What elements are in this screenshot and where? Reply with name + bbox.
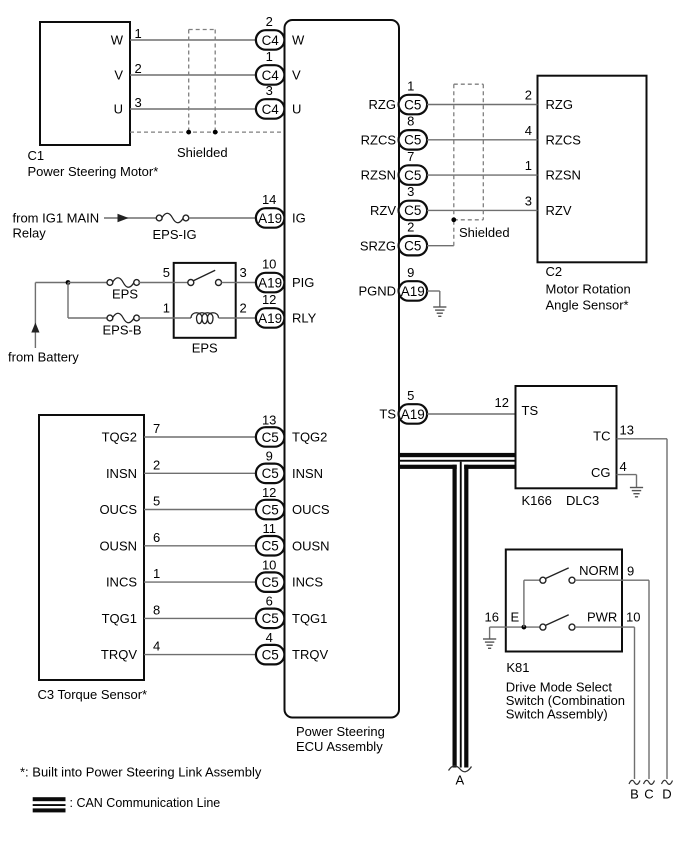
svg-text:OUSN: OUSN [292,538,330,553]
svg-text:C5: C5 [262,502,279,517]
svg-text:TS: TS [379,407,396,422]
svg-text:4: 4 [525,123,532,138]
svg-text:TQG1: TQG1 [292,611,327,626]
svg-text:RZG: RZG [369,97,396,112]
svg-text:RZCS: RZCS [361,132,397,147]
svg-text:TS: TS [522,403,539,418]
svg-text:2: 2 [153,457,160,472]
svg-text:Relay: Relay [13,226,47,241]
svg-text:13: 13 [262,412,276,427]
svg-text:12: 12 [262,485,276,500]
svg-text:3: 3 [266,83,273,98]
svg-text:INSN: INSN [292,466,323,481]
svg-text:12: 12 [495,395,509,410]
svg-text:OUCS: OUCS [292,502,330,517]
svg-text:5: 5 [163,265,170,280]
svg-text:*: Built into Power Steering L: *: Built into Power Steering Link Assemb… [20,765,262,780]
svg-text:8: 8 [407,114,414,129]
svg-text:RZG: RZG [546,97,573,112]
svg-text:C3 Torque Sensor*: C3 Torque Sensor* [38,687,148,702]
svg-text:INCS: INCS [106,575,137,590]
svg-text:1: 1 [163,301,170,316]
svg-text:V: V [114,68,123,83]
svg-text:3: 3 [407,184,414,199]
svg-text:2: 2 [135,61,142,76]
svg-text:EPS: EPS [192,341,218,356]
svg-text:C4: C4 [262,102,280,117]
svg-text:C5: C5 [404,239,421,254]
svg-text:1: 1 [407,78,414,93]
svg-text:IG: IG [292,211,306,226]
svg-text:10: 10 [262,557,276,572]
svg-text:C5: C5 [262,466,279,481]
svg-text:14: 14 [262,192,276,207]
svg-text:4: 4 [153,639,160,654]
svg-text:DLC3: DLC3 [566,493,599,508]
svg-text:10: 10 [262,256,276,271]
svg-text:2: 2 [525,88,532,103]
svg-text:8: 8 [153,602,160,617]
svg-text:3: 3 [135,95,142,110]
svg-text:C4: C4 [262,68,280,83]
svg-text:6: 6 [266,594,273,609]
svg-text:TRQV: TRQV [101,647,137,662]
svg-text:K166: K166 [522,493,552,508]
svg-text:EPS-IG: EPS-IG [153,227,197,242]
svg-text:A19: A19 [258,311,282,326]
svg-text:TC: TC [593,429,610,444]
svg-text:OUCS: OUCS [99,502,137,517]
svg-text:RZV: RZV [546,203,572,218]
svg-text:9: 9 [407,265,414,280]
svg-text:3: 3 [525,193,532,208]
svg-text:Power Steering: Power Steering [296,724,385,739]
svg-text:C5: C5 [262,539,279,554]
svg-text:C5: C5 [262,430,279,445]
svg-text:C5: C5 [404,203,421,218]
svg-text:6: 6 [153,530,160,545]
svg-text:INSN: INSN [106,466,137,481]
svg-text:PIG: PIG [292,275,314,290]
svg-text:Shielded: Shielded [459,225,510,240]
svg-text:Motor Rotation: Motor Rotation [546,282,631,297]
svg-text:CG: CG [591,465,611,480]
svg-text:V: V [292,68,301,83]
svg-text:K81: K81 [506,660,529,675]
svg-text:TQG1: TQG1 [102,611,137,626]
svg-text:11: 11 [262,521,276,536]
svg-text:C2: C2 [546,264,563,279]
svg-text:2: 2 [266,14,273,29]
svg-text:A19: A19 [258,275,282,290]
svg-text:C: C [644,787,653,802]
svg-text:7: 7 [407,149,414,164]
svg-text:C5: C5 [404,133,421,148]
svg-text:RZSN: RZSN [546,168,581,183]
svg-text:E: E [511,610,520,625]
svg-text:RLY: RLY [292,311,317,326]
svg-text:7: 7 [153,421,160,436]
svg-text:EPS: EPS [112,287,138,302]
svg-text:: CAN Communication Line: : CAN Communication Line [70,796,221,810]
svg-text:1: 1 [153,566,160,581]
svg-text:9: 9 [627,564,634,579]
svg-text:RZSN: RZSN [361,168,396,183]
svg-text:OUSN: OUSN [99,538,137,553]
svg-text:3: 3 [240,265,247,280]
svg-text:2: 2 [407,220,414,235]
svg-text:10: 10 [626,610,640,625]
svg-text:RZCS: RZCS [546,132,582,147]
svg-text:12: 12 [262,292,276,307]
svg-text:C5: C5 [262,611,279,626]
svg-text:Shielded: Shielded [177,145,228,160]
svg-text:PGND: PGND [358,284,396,299]
svg-text:Switch Assembly): Switch Assembly) [506,706,608,721]
svg-text:Power Steering Motor*: Power Steering Motor* [28,164,159,179]
svg-text:INCS: INCS [292,575,323,590]
svg-text:1: 1 [266,49,273,64]
svg-text:TRQV: TRQV [292,647,328,662]
svg-text:Angle Sensor*: Angle Sensor* [546,298,629,313]
svg-text:C5: C5 [262,575,279,590]
svg-text:C5: C5 [262,647,279,662]
svg-text:TQG2: TQG2 [292,430,327,445]
svg-text:2: 2 [240,301,247,316]
svg-text:EPS-B: EPS-B [103,323,142,338]
svg-text:A19: A19 [258,211,282,226]
svg-text:9: 9 [266,449,273,464]
svg-text:5: 5 [153,494,160,509]
svg-text:A: A [455,773,464,788]
svg-text:16: 16 [485,610,499,625]
svg-text:from Battery: from Battery [8,350,79,365]
svg-text:C5: C5 [404,168,421,183]
svg-text:from IG1 MAIN: from IG1 MAIN [13,211,100,226]
svg-text:D: D [662,787,671,802]
svg-text:ECU Assembly: ECU Assembly [296,739,383,754]
svg-text:PWR: PWR [587,610,617,625]
svg-text:NORM: NORM [579,563,619,578]
svg-text:C1: C1 [28,148,45,163]
svg-text:1: 1 [525,158,532,173]
svg-text:1: 1 [135,26,142,41]
svg-text:W: W [292,33,305,48]
svg-text:4: 4 [620,459,627,474]
svg-text:C5: C5 [404,97,421,112]
svg-text:SRZG: SRZG [360,238,396,253]
svg-text:C4: C4 [262,33,280,48]
svg-text:U: U [292,102,301,117]
svg-text:W: W [111,33,124,48]
svg-text:RZV: RZV [370,203,396,218]
svg-text:A19: A19 [401,284,425,299]
svg-text:B: B [630,787,639,802]
svg-text:13: 13 [620,423,634,438]
svg-text:A19: A19 [401,407,425,422]
svg-text:5: 5 [407,388,414,403]
svg-text:U: U [114,102,123,117]
svg-text:TQG2: TQG2 [102,430,137,445]
svg-text:4: 4 [266,630,273,645]
